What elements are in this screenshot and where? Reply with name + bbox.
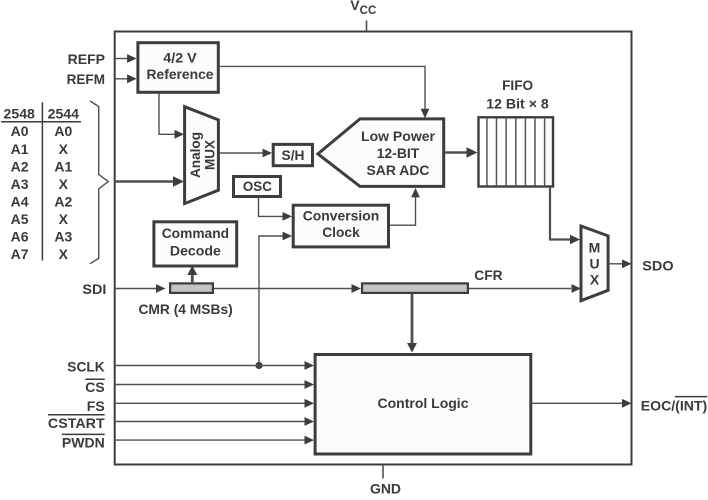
power VCC pin stub [366, 21, 368, 32]
svg-text:Low Power: Low Power [361, 128, 436, 144]
svg-text:A2: A2 [54, 193, 72, 209]
svg-text:A4: A4 [11, 193, 29, 209]
svg-text:SDO: SDO [642, 257, 673, 273]
svg-text:A6: A6 [11, 229, 29, 245]
svg-text:X: X [59, 211, 69, 227]
block: oscillator OSC [234, 177, 281, 197]
svg-text:2544: 2544 [48, 106, 80, 122]
svg-text:GND: GND [370, 481, 401, 495]
wire analog MUX to S/H [220, 152, 263, 154]
block: Analog MUX [185, 107, 219, 204]
wire conversion clock to SAR ADC [390, 197, 416, 225]
table column divider [41, 102, 43, 260]
svg-text:Command: Command [162, 225, 229, 241]
svg-text:FS: FS [87, 398, 105, 414]
svg-text:CSTART: CSTART [48, 415, 105, 431]
block: Command Decode [154, 222, 237, 266]
wire control logic to EOC pin [532, 402, 622, 404]
FIFO cell divider 2 [496, 119, 498, 187]
svg-text:A5: A5 [11, 211, 29, 227]
FIFO cell divider 1 [486, 119, 488, 187]
svg-text:OSC: OSC [243, 178, 272, 194]
overline for CSTART [48, 414, 105, 416]
overline for CS [85, 378, 104, 380]
wire CMR to CFR [214, 288, 352, 290]
overline for PWDN [62, 433, 105, 435]
block: sample and hold S/H [273, 144, 312, 165]
svg-text:12-BIT: 12-BIT [377, 145, 420, 161]
wire FS to control logic [115, 402, 305, 404]
svg-text:FIFO: FIFO [502, 77, 533, 93]
svg-text:U: U [589, 256, 599, 272]
svg-text:CFR: CFR [474, 267, 502, 283]
svg-text:A2: A2 [11, 158, 29, 174]
wire CSTART to control logic [115, 421, 305, 423]
overline for (INT) [675, 396, 707, 398]
wire SCLK to control logic [115, 365, 305, 367]
wire OSC to conversion clock [259, 198, 283, 217]
wire SDI into chip [115, 288, 156, 290]
wire REFM to reference [115, 78, 128, 80]
wire FIFO to output MUX [550, 188, 571, 240]
svg-text:A3: A3 [11, 176, 29, 192]
svg-text:A7: A7 [11, 246, 29, 262]
svg-text:Clock: Clock [322, 224, 360, 240]
block: Low Power 12-BIT SAR ADC [318, 119, 444, 186]
svg-text:A1: A1 [11, 141, 29, 157]
wire reference to SAR ADC [220, 66, 425, 109]
FIFO cell divider 4 [515, 119, 517, 187]
wire SAR ADC to FIFO [445, 151, 467, 154]
junction on SCLK line [255, 362, 262, 369]
svg-text:A3: A3 [54, 229, 72, 245]
svg-text:Reference: Reference [147, 66, 214, 82]
svg-text:S/H: S/H [282, 147, 305, 163]
svg-text:X: X [590, 272, 600, 288]
wire MUX to SDO pin [610, 263, 622, 265]
svg-text:MUX: MUX [202, 139, 218, 170]
svg-text:SAR ADC: SAR ADC [367, 162, 430, 178]
FIFO cell divider 6 [534, 119, 536, 187]
svg-text:2548: 2548 [4, 106, 36, 122]
register CFR bar [362, 283, 468, 293]
svg-text:PWDN: PWDN [62, 434, 105, 450]
svg-text:SDI: SDI [82, 281, 106, 297]
block: output MUX [581, 226, 608, 301]
register CMR bar [170, 283, 213, 293]
svg-text:M: M [589, 240, 601, 256]
table header underline [1, 121, 81, 123]
svg-text:REFM: REFM [67, 71, 105, 87]
svg-text:Decode: Decode [170, 242, 221, 258]
wire reference to analog MUX [159, 94, 175, 135]
svg-text:X: X [59, 246, 69, 262]
FIFO cell divider 5 [524, 119, 526, 187]
ground GND pin stub [382, 465, 384, 479]
svg-text:REFP: REFP [68, 51, 105, 67]
block: 4/2 V Reference U-ref [138, 43, 218, 93]
FIFO cell divider 3 [505, 119, 507, 187]
svg-text:Conversion: Conversion [303, 208, 380, 224]
wire CFR to control logic [411, 294, 414, 346]
brace grouping analog inputs [90, 101, 108, 264]
svg-text:4/2 V: 4/2 V [163, 49, 197, 65]
wire CMR to command decode [191, 274, 194, 284]
svg-text:CMR (4 MSBs): CMR (4 MSBs) [138, 301, 232, 317]
wire SCLK to conversion clock [259, 236, 283, 366]
wire analog input bus to MUX [115, 180, 174, 183]
wire PWDN to control logic [115, 439, 305, 441]
block: Control Logic [315, 355, 531, 455]
svg-text:12 Bit × 8: 12 Bit × 8 [486, 95, 549, 111]
svg-text:X: X [59, 141, 69, 157]
chip boundary box [115, 32, 632, 465]
wire REFP to reference [115, 58, 128, 60]
block: Conversion Clock [293, 205, 388, 247]
FIFO cell divider 7 [544, 119, 546, 187]
wire CS to control logic [115, 384, 305, 386]
svg-text:X: X [59, 176, 69, 192]
svg-text:A0: A0 [11, 123, 29, 139]
block: FIFO 12 Bit x 8 [479, 117, 554, 186]
svg-text:SCLK: SCLK [67, 359, 104, 375]
wire CFR to output MUX [469, 288, 571, 290]
svg-text:A0: A0 [54, 123, 72, 139]
svg-text:A1: A1 [54, 158, 72, 174]
svg-text:CS: CS [85, 379, 104, 395]
svg-text:Control Logic: Control Logic [378, 395, 469, 411]
svg-text:EOC/(INT): EOC/(INT) [641, 397, 707, 413]
